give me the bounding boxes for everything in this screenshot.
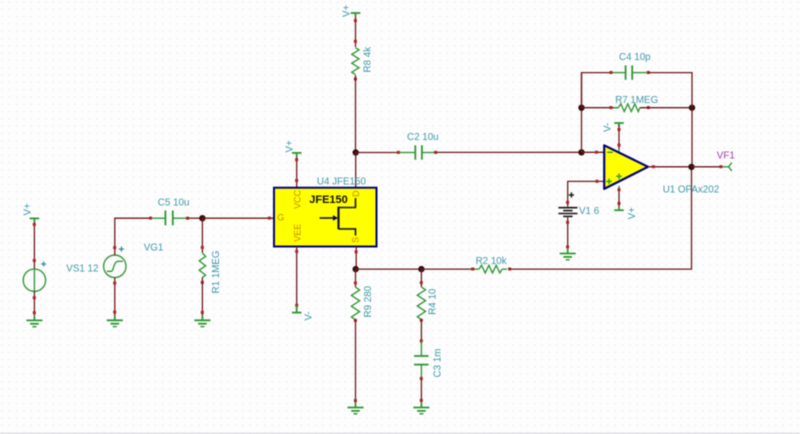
svg-text:C5 10u: C5 10u — [158, 197, 190, 208]
power V+ symbol (above JFET VCC) — [285, 140, 302, 157]
svg-text:R1 1MEG: R1 1MEG — [211, 250, 222, 293]
ground (R1) — [194, 316, 210, 327]
capacitor C5 10u — [152, 197, 189, 225]
svg-text:V-: V- — [304, 311, 315, 320]
wire V+ to R8 — [354, 17, 357, 48]
ground (V1) — [560, 249, 576, 260]
JFET symbol inside U4 — [320, 217, 334, 219]
svg-text:VCC: VCC — [292, 189, 302, 209]
ground (VG1) — [107, 316, 123, 327]
svg-text:R9 280: R9 280 — [363, 285, 374, 317]
svg-text:R4 10: R4 10 — [428, 288, 439, 315]
capacitor C4 10p — [582, 52, 693, 108]
node output junction — [688, 164, 694, 170]
svg-text:V+: V+ — [627, 207, 638, 220]
svg-text:V+: V+ — [23, 203, 34, 216]
capacitor C3 1m — [414, 341, 443, 380]
transistor U4 JFE150 — [274, 176, 377, 246]
svg-text:JFE150: JFE150 — [309, 194, 348, 206]
resistor R9 280 — [351, 285, 374, 322]
wire JFET S pin to source node — [355, 247, 358, 270]
svg-text:R2 10k: R2 10k — [476, 256, 507, 267]
wire source node to R9 — [354, 269, 357, 287]
ground (VS1) — [26, 316, 42, 327]
output gateway VF1 — [717, 150, 735, 171]
node inverting input junction — [578, 149, 584, 155]
svg-text:VF1: VF1 — [717, 150, 735, 161]
svg-text:V-: V- — [603, 123, 614, 132]
wire V+ to VCC pin — [295, 157, 298, 188]
wire R4 to C3 — [420, 320, 423, 345]
wire inverting node to op-amp - input — [582, 151, 605, 154]
svg-text:VG1: VG1 — [144, 242, 164, 253]
wire feedback left vertical — [581, 73, 583, 153]
wire VS1 to ground — [33, 291, 36, 315]
power V+ symbol (left, above VS1) — [23, 203, 40, 222]
svg-text:R7 1MEG: R7 1MEG — [615, 95, 658, 106]
power V- symbol (below JFET VEE) — [292, 306, 315, 321]
node R7 left junction — [578, 105, 584, 111]
resistor R7 1MEG — [582, 95, 693, 111]
wire VG1 top to C5 node — [113, 217, 152, 256]
svg-text:R8 4k: R8 4k — [363, 47, 374, 73]
node junction (C5/R1/gate) — [199, 215, 205, 221]
svg-text:C2 10u: C2 10u — [407, 132, 439, 143]
wire C3 to ground — [420, 380, 423, 403]
resistor R2 10k — [475, 256, 512, 273]
wire C5 to node R1 — [188, 217, 202, 219]
wire drain node to C2 — [356, 151, 400, 154]
wire C2 to inverting node — [436, 151, 582, 153]
wire op-amp output to node — [648, 165, 692, 168]
svg-text:VS1 12: VS1 12 — [66, 264, 98, 275]
svg-text:U1 OPAx202: U1 OPAx202 — [663, 185, 719, 196]
wire R7/C4 right to output node — [691, 108, 693, 167]
node R4 junction — [418, 266, 424, 272]
resistor R4 10 — [417, 287, 438, 322]
wire VG1 bottom to ground — [113, 278, 116, 316]
ground (C3) — [413, 403, 429, 414]
svg-text:G: G — [277, 212, 284, 222]
wire V- to op-amp top supply pin — [618, 123, 621, 152]
wire source node to R2 node — [356, 268, 422, 270]
svg-text:VEE: VEE — [292, 224, 302, 242]
power V- symbol (above op-amp) — [603, 123, 624, 132]
ground (R9) — [348, 403, 364, 414]
wire R8 to drain node — [355, 75, 357, 153]
svg-text:U4 JFE150: U4 JFE150 — [317, 176, 367, 187]
wire output node to VF1 — [692, 165, 723, 168]
wire drain node to JFET D pin — [355, 153, 357, 193]
wire R9 to ground — [354, 320, 357, 403]
wire V+ to VS1 — [33, 222, 36, 269]
svg-text:D: D — [351, 190, 361, 197]
svg-text:C4 10p: C4 10p — [619, 52, 651, 63]
wire op-amp bottom supply pin to V+ — [618, 186, 621, 210]
wire R1 to ground — [201, 277, 204, 315]
wire node to R2 — [421, 268, 475, 271]
node drain junction — [353, 149, 359, 155]
generator VG1 — [104, 242, 164, 277]
wire node to R1 — [201, 218, 204, 253]
power V+ symbol (below op-amp) — [614, 207, 638, 220]
node source junction — [353, 266, 359, 272]
svg-text:V+: V+ — [342, 4, 353, 17]
op-amp U1 OPAx202 — [604, 145, 719, 195]
wire node to R4 — [420, 269, 423, 287]
wire R2 to output node — [510, 167, 692, 269]
resistor R1 1MEG — [199, 250, 222, 293]
svg-text:V+: V+ — [285, 140, 296, 153]
voltage source VS1 12 — [23, 262, 98, 292]
capacitor C2 10u — [400, 132, 439, 160]
wire V1 to ground — [566, 217, 569, 248]
svg-text:V1 6: V1 6 — [579, 206, 600, 217]
resistor R8 4k — [352, 47, 374, 81]
node R7 right junction — [689, 105, 695, 111]
battery V1 6 — [558, 180, 604, 217]
power V+ symbol (top, above R8) — [342, 4, 361, 17]
wire node to JFET gate — [202, 217, 274, 220]
svg-text:S: S — [351, 237, 361, 243]
svg-text:C3 1m: C3 1m — [433, 349, 444, 378]
wire VEE pin to V- — [295, 247, 298, 307]
